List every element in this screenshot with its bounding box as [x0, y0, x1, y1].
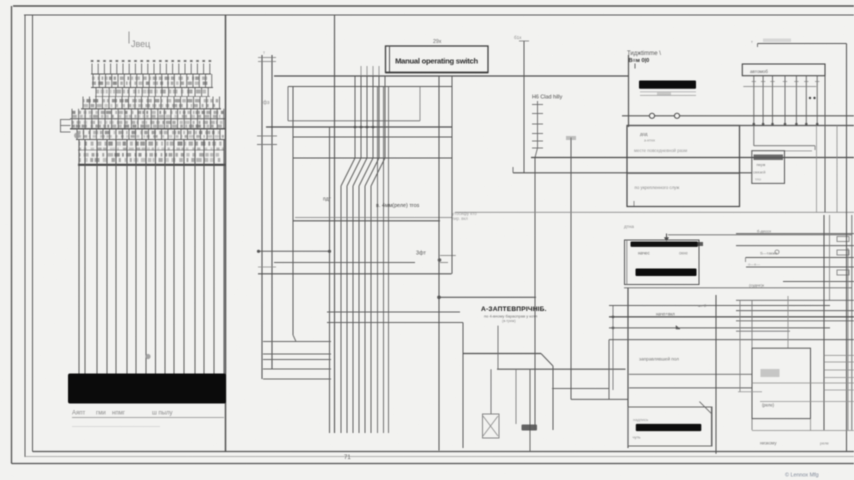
connector X2 pin ticks [752, 81, 820, 83]
harness wires to terminal strip [79, 140, 224, 374]
svg-text:о—к—: о—к— [748, 262, 760, 267]
bus main 157 long [531, 157, 854, 159]
bus I link [552, 388, 609, 390]
block U3 box [628, 407, 712, 446]
svg-text:3фт: 3фт [416, 251, 426, 257]
connector J1 pin ticks row2 [93, 74, 212, 88]
long vertical net 439 [438, 76, 440, 451]
bus pair wire left [261, 55, 263, 379]
block K3 filled bar mid [636, 269, 697, 277]
panel divider [225, 15, 227, 452]
svg-text:реле: реле [820, 440, 830, 445]
svg-text:б-дессх: б-дессх [757, 229, 771, 234]
net 297 link [439, 296, 536, 298]
switch box S1 [386, 46, 489, 73]
svg-text:з-хтxx: з-хтxx [644, 138, 655, 143]
vertical net 716 [715, 295, 717, 454]
junction dot on wire [145, 354, 150, 359]
vertical net 553 [552, 366, 554, 430]
coil L1 [483, 414, 500, 438]
bus C horizontal strong [266, 126, 452, 128]
svg-text:мт б: мт б [698, 303, 707, 308]
band row h [609, 339, 854, 341]
long vertical net 293 [292, 87, 294, 336]
capacitor C1 lead [529, 369, 531, 451]
connector J1 pin ticks row5 [72, 109, 224, 119]
vertical net 824 lower [823, 215, 825, 430]
module U1 internal line [627, 172, 740, 174]
vertical net 837 [836, 126, 838, 213]
block K3 box [625, 240, 700, 285]
link 151 [784, 150, 813, 152]
vertical net 740 [739, 300, 741, 392]
vertical net 816 [816, 126, 818, 213]
module box U1 [627, 126, 740, 207]
relay K1 lead [628, 55, 630, 127]
vertical net 452 [451, 76, 453, 274]
relay module K4 box [752, 151, 785, 184]
coil L1 lead [490, 369, 492, 414]
junction dot net297 [437, 296, 441, 300]
dots pair [809, 97, 811, 99]
svg-text:Manual operating switch: Manual operating switch [395, 57, 478, 66]
terminal row 3 [746, 257, 854, 259]
capacitor C1 plate [522, 425, 538, 431]
junction blob [74, 133, 80, 139]
short right rows [824, 354, 854, 356]
terminal clips right edge [837, 237, 849, 242]
fuse chain label tick [519, 40, 529, 42]
bus B horizontal [288, 86, 452, 88]
long vertical net 334 [334, 15, 336, 433]
svg-text:месте повседневной разм: месте повседневной разм [634, 148, 687, 153]
bus 125 right [627, 125, 854, 127]
svg-text:нпмг: нпмг [112, 411, 126, 417]
svg-text:низкому: низкому [760, 440, 777, 445]
sheet border outer bottom [12, 463, 854, 465]
svg-text:автомоб: автомоб [750, 69, 768, 74]
terminal row 5 [783, 281, 854, 283]
relay K1 caption lines [640, 91, 696, 93]
svg-text:пдт: пдт [323, 197, 332, 203]
svg-text:тло: тло [755, 178, 761, 182]
vertical net 535 [534, 158, 536, 431]
feed line top right [758, 43, 847, 45]
svg-text:связей: связей [753, 170, 766, 175]
band row d strong [609, 316, 854, 318]
svg-text:пир. вкл: пир. вкл [452, 216, 468, 221]
band row b [609, 305, 830, 307]
sheet border inner left [24, 15, 26, 457]
diagonal link [699, 402, 711, 414]
bus 212 long [455, 211, 854, 213]
connector J1 pin ticks row4 [83, 97, 220, 109]
bus A horizontal [274, 75, 629, 77]
connector X2 crossbar [743, 86, 816, 88]
connector J1 pin ticks row6 [72, 119, 224, 129]
connector J1 block bottom rail [78, 164, 226, 166]
stub links at node [440, 255, 456, 257]
svg-text:гми: гми [96, 411, 106, 417]
vertical net 609 [608, 340, 610, 400]
band row g [736, 330, 790, 332]
svg-text:фз: фз [263, 100, 270, 106]
bus H link [497, 368, 626, 370]
net 322 link [327, 322, 463, 324]
vertical net 628 lower [627, 288, 629, 448]
vertical net 571 [570, 138, 572, 400]
svg-text:(судне)к: (судне)к [749, 283, 764, 288]
vertical net 829 [829, 215, 831, 300]
svg-text:по укрепленного служ: по укрепленного служ [635, 185, 680, 190]
svg-text:окне: окне [679, 251, 688, 256]
vertical net 848 [847, 248, 849, 430]
connector J1 pin ticks row3 [96, 88, 208, 97]
svg-text:Jвец: Jвец [131, 39, 150, 49]
bus pair wire right [271, 55, 273, 369]
connector J8 label tick [128, 32, 130, 44]
fuse chain F6 [537, 101, 539, 148]
net 273 link [258, 273, 452, 275]
wire bundle straight verticals [378, 87, 389, 434]
band row e [736, 320, 854, 322]
terminal strip filled bar [68, 374, 226, 404]
vertical net 851 [851, 215, 853, 430]
vertical net 825 [824, 76, 826, 213]
wire bundle diagonal offset [341, 158, 385, 186]
terminal row 1 [736, 233, 854, 235]
block K3 filled bar top [631, 242, 699, 247]
connector X2 junction dots [753, 123, 756, 126]
svg-text:ш пылу: ш пылу [152, 411, 173, 417]
caption underline [72, 417, 224, 419]
connector J1 block horizontal rails [91, 73, 211, 75]
svg-text:надпись: надпись [633, 417, 648, 422]
block U3 filled bar [636, 424, 702, 431]
connector J1 wire header hatch [79, 142, 81, 146]
relay module K4 bar [754, 155, 784, 161]
sheet border outer top [13, 5, 854, 7]
vertical net 752 [751, 300, 753, 430]
link 399 [571, 398, 628, 400]
bus main 172 long [513, 172, 752, 174]
svg-text:в. 4мм(реле) тros: в. 4мм(реле) тros [376, 203, 420, 209]
bus 388 [629, 387, 752, 389]
link 145 [754, 145, 815, 147]
svg-text:Тиджtimme \: Тиджtimme \ [627, 51, 661, 57]
contact circle a [649, 113, 654, 118]
svg-text:Аяпт: Аяпт [72, 411, 86, 417]
vertical net 613 [612, 305, 614, 390]
relay frame K2 bottom [288, 120, 420, 122]
svg-text:(реле): (реле) [762, 403, 775, 408]
band row c [736, 310, 854, 312]
svg-text:начес: начес [638, 251, 650, 256]
vertical net 498 [497, 326, 499, 370]
connector X2 wires [754, 76, 817, 126]
bus 288 [624, 287, 852, 289]
switch box S1 bottom edge [386, 72, 489, 74]
svg-text:© Lеnnох Мfg: © Lеnnох Мfg [785, 472, 819, 479]
band row f [609, 327, 830, 329]
svg-text:чуть: чуть [633, 435, 641, 440]
bus pair header ticks [258, 57, 276, 59]
svg-text:H6 Clаd hillу: H6 Clаd hillу [532, 95, 563, 101]
vertical net 463 [462, 323, 464, 449]
net 251 link [259, 250, 330, 252]
svg-text:А-ЗАПТЕВПРІЧНІБ.: А-ЗАПТЕВПРІЧНІБ. [481, 306, 547, 313]
sheet border inner bottom [33, 451, 854, 453]
junction dots on bus C [354, 126, 357, 129]
bus F pair [295, 217, 452, 219]
bus E horizontal [293, 157, 452, 159]
sheet border margin left [32, 15, 34, 452]
bus 430 [752, 430, 854, 432]
long vertical net 330 [329, 127, 331, 433]
svg-text:по 4-вному барасправ у котл: по 4-вному барасправ у котл [484, 313, 538, 318]
vertical net 516 [515, 369, 517, 424]
terminal row 2 [736, 245, 854, 247]
svg-text:дод: дод [640, 132, 648, 137]
connector J1 pin numbers [91, 60, 211, 62]
vertical net 711 [710, 407, 712, 446]
bus 374 [629, 373, 752, 375]
svg-text:заправлявшей пол: заправлявшей пол [639, 355, 679, 361]
block U2 box [752, 348, 811, 418]
svg-text:29x: 29x [433, 39, 442, 45]
bundle left links [263, 341, 331, 343]
contact bus 116 [622, 115, 854, 117]
connector J1 pin ticks row7 [77, 129, 220, 140]
net 262 link [274, 262, 415, 264]
stub row left [738, 391, 762, 393]
wire bundle upper verticals [355, 76, 385, 158]
connector J1 pin ticks row1 [92, 64, 210, 75]
bus 235 [668, 234, 852, 236]
sheet border inner top [24, 14, 854, 16]
svg-text:71: 71 [344, 455, 351, 461]
terminal row 4 [746, 266, 854, 268]
connector X2 box [742, 64, 825, 76]
net 312 link [327, 311, 460, 313]
connector stub left [60, 119, 71, 121]
svg-text:(в-триж): (в-триж) [502, 319, 516, 323]
wire bundle top stubs [361, 66, 379, 76]
block U2 internal [752, 382, 854, 384]
sheet border outer left [11, 6, 13, 464]
bus 401 right [760, 401, 854, 403]
vertical net 788 [787, 296, 789, 348]
bus D horizontal [293, 136, 452, 138]
bus G strong [463, 353, 541, 355]
band row a [736, 299, 854, 301]
svg-text:В≡м 0|0: В≡м 0|0 [629, 58, 650, 64]
bus pair mid ticks [257, 135, 277, 137]
svg-text:б1х: б1х [514, 35, 522, 40]
bus pair hatch tick [258, 266, 276, 268]
junction mark [438, 258, 442, 262]
relay K1 filled bar [639, 81, 696, 89]
vertical net 846 [846, 44, 848, 452]
svg-text:т: т [751, 39, 753, 44]
svg-text:начп+вкл: начп+вкл [656, 311, 675, 316]
contact circle b [674, 113, 679, 118]
title strip line [25, 456, 854, 458]
block U2 blob [761, 369, 780, 377]
vertical net 524 [523, 41, 525, 173]
svg-text:дтна: дтна [624, 224, 634, 229]
right grid drop [753, 126, 755, 146]
block K3 arrow [666, 234, 668, 241]
svg-text:т: т [263, 50, 265, 55]
vertical net 810 lower [810, 419, 812, 431]
relay frame K2 top [287, 87, 289, 121]
svg-text:перв: перв [757, 162, 766, 167]
wire bundle lower verticals [341, 186, 371, 433]
